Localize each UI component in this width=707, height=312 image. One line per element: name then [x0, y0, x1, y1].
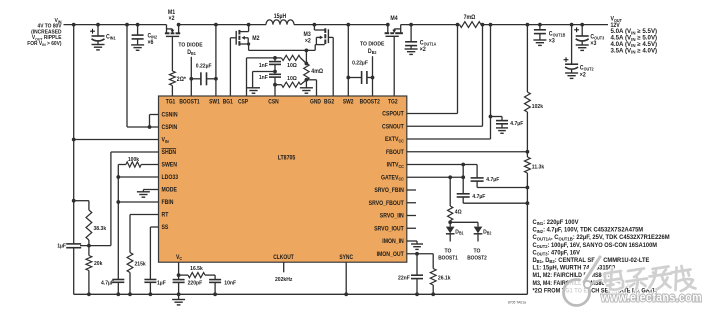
wire VIN pin wire — [74, 139, 159, 141]
svg-text:×2: ×2 — [305, 38, 312, 44]
svg-text:4.0A (VIN ≥ 4.5V): 4.0A (VIN ≥ 4.5V) — [611, 42, 658, 48]
capacitor 10nF compensation — [209, 280, 236, 295]
capacitor CIN2 x6 (ceramic, to ground) — [131, 25, 158, 51]
capacitor 4.7uF INTVCC bypass — [471, 177, 528, 188]
capacitor 0.22uF boost2 — [348, 61, 372, 84]
junction ground rail / 1uF SS — [149, 292, 153, 296]
svg-text:1µF: 1µF — [57, 244, 66, 250]
junction VIN rail / CIN1 — [96, 23, 100, 27]
svg-text:0.22µF: 0.22µF — [352, 61, 368, 67]
resistor 215k RT — [127, 253, 146, 273]
junction rail / COUT3 — [580, 23, 584, 27]
wire SHDN pin wire — [111, 152, 159, 246]
svg-text:SW2: SW2 — [343, 99, 354, 105]
wire CSN riser — [274, 85, 276, 96]
wire BOOST2 riser — [372, 56, 374, 96]
wire CSNIN pin stub — [150, 115, 159, 128]
svg-text:FBOUT: FBOUT — [386, 150, 404, 156]
svg-text:SRVO_FBIN: SRVO_FBIN — [374, 188, 403, 194]
junction SW2 riser / 0.22uF — [346, 76, 350, 80]
svg-text:TG1: TG1 — [166, 99, 176, 105]
junction FBIN wire — [116, 200, 120, 204]
svg-text:SRVO_IOUT: SRVO_IOUT — [374, 226, 404, 232]
wire 215k to ground rail — [129, 273, 131, 295]
svg-text:4.5A (VIN ≥ 5.0V): 4.5A (VIN ≥ 5.0V) — [611, 36, 658, 42]
svg-text:DB1: DB1 — [187, 50, 196, 56]
svg-text:FOR VIN > 60V): FOR VIN > 60V) — [27, 41, 61, 47]
svg-text:10Ω: 10Ω — [287, 76, 297, 82]
svg-text:COUT2: COUT2 — [580, 66, 594, 72]
svg-text:5.0A (VIN ≥ 5.5V): 5.0A (VIN ≥ 5.5V) — [611, 29, 658, 35]
junction CSN node — [273, 83, 277, 87]
node BOM parts list — [533, 219, 670, 294]
svg-text:BOOST1: BOOST1 — [179, 99, 200, 105]
svg-text:10Ω: 10Ω — [287, 63, 297, 69]
junction ground rail / 22nF — [415, 292, 419, 296]
junction GATEVCC / tie — [461, 175, 465, 179]
wire 4mOhm bottom to GND pin — [306, 80, 316, 96]
svg-text:SW1: SW1 — [209, 99, 220, 105]
capacitor CIN1 (polarized, to ground) — [90, 25, 116, 50]
junction source wire / 4mOhm — [305, 49, 309, 53]
wire VIN riser (rail down to divider/bypass) — [73, 25, 75, 244]
wire SRVO_IOUT stub — [407, 227, 416, 229]
wire M1 gate to 2 Ohm resistor — [171, 36, 173, 71]
svg-text:×2: ×2 — [580, 73, 587, 79]
svg-text:12V: 12V — [611, 23, 620, 29]
junction ground rail / 20k — [87, 292, 91, 296]
svg-text:COUT1A, COUT1B: 22µF, 25V, TDK: COUT1A, COUT1B: 22µF, 25V, TDK C4532X7R1… — [533, 234, 670, 241]
wire SRVO_IIN stub — [407, 215, 416, 217]
junction ground rail / 220pF — [177, 292, 181, 296]
wire filter mid node to ground — [253, 72, 275, 88]
svg-text:DB1: DB1 — [455, 229, 464, 235]
wire RT pin wire — [130, 215, 159, 253]
svg-text:CSPIN: CSPIN — [162, 125, 178, 131]
wire feedback ground chain — [526, 173, 528, 294]
wire mid node to SHDN riser — [80, 245, 111, 247]
svg-text:TO: TO — [474, 248, 481, 254]
capacitor COUT3 x3 (polarized, to ground) — [574, 25, 605, 51]
svg-text:3.5A (VIN ≥ 4.0V): 3.5A (VIN ≥ 4.0V) — [611, 48, 658, 54]
wire CSNIN-CSPIN riser — [127, 25, 159, 127]
resistor 26.1k IMON_OUT — [430, 269, 451, 295]
wire TG2 riser (M4 gate to TG2) — [393, 36, 395, 96]
junction rail / M4 drain — [386, 23, 390, 27]
junction 4mOhm bottom — [305, 78, 309, 82]
junction VC node — [177, 273, 181, 277]
svg-text:TO: TO — [445, 248, 452, 254]
svg-text:TO DIODE: TO DIODE — [178, 42, 202, 48]
capacitor COUT2 x2 (polarized, to ground) — [564, 25, 595, 79]
svg-text:26.1k: 26.1k — [438, 276, 451, 282]
junction rail / COUT1A — [409, 23, 413, 27]
capacitor 1uF VIN bypass — [57, 244, 81, 295]
junction IMON_OUT / 22nF — [415, 252, 419, 256]
resistor 102k feedback upper — [525, 92, 544, 112]
svg-text:2Ω*: 2Ω* — [177, 77, 187, 83]
node VOUT output label — [611, 17, 658, 55]
junction ground rail / SYNC — [344, 292, 348, 296]
wire FBOUT pin wire — [407, 151, 528, 153]
svg-text:SRVO_IIN: SRVO_IIN — [380, 214, 404, 220]
wire ground rail — [74, 293, 528, 295]
ground IMON_IN — [411, 244, 423, 249]
junction rail / COUT1B — [538, 23, 542, 27]
ground MODE — [137, 192, 150, 197]
svg-text:SS: SS — [162, 225, 169, 231]
svg-text:×6: ×6 — [148, 40, 155, 46]
svg-text:CSN: CSN — [268, 99, 278, 105]
wire CSPOUT sense line — [407, 25, 458, 114]
svg-text:SHDN: SHDN — [162, 150, 177, 156]
svg-text:TG2: TG2 — [388, 99, 398, 105]
wire BOOST1 riser — [190, 57, 192, 96]
junction fb chain / GATEVCC cap return — [526, 201, 530, 205]
junction ground rail / 26.1k — [431, 292, 435, 296]
svg-text:GND: GND — [310, 99, 321, 105]
transistor M4 (top-right NMOS switch) — [385, 16, 403, 36]
svg-text:0.22µF: 0.22µF — [196, 63, 212, 69]
junction EXTVCC riser / bypass — [489, 115, 493, 119]
svg-text:DB2: DB2 — [483, 229, 492, 235]
svg-text:BG2: BG2 — [324, 99, 335, 105]
wire rail segment E (7mOhm to VOUT label) — [481, 24, 608, 26]
svg-text:M3: M3 — [304, 32, 312, 38]
svg-text:www.elecfans.com: www.elecfans.com — [600, 290, 702, 305]
svg-text:15µH: 15µH — [274, 14, 287, 20]
junction rail / COUT2 riser — [570, 23, 574, 27]
resistor 4 Ohm boost diode feed — [448, 177, 462, 222]
svg-text:7mΩ: 7mΩ — [464, 15, 476, 21]
wire FBIN pin wire — [118, 201, 158, 203]
svg-text:INTVCC: INTVCC — [387, 163, 404, 169]
svg-text:4mΩ: 4mΩ — [311, 69, 323, 75]
node TO BOOST2 label — [467, 248, 487, 261]
wire LDO33 pin wire — [118, 176, 158, 178]
svg-text:102k: 102k — [532, 104, 544, 110]
svg-text:20k: 20k — [94, 261, 103, 267]
wire VIN rail segment A (VIN label to M1 source) — [64, 24, 167, 26]
svg-text:CIN2: CIN2 — [148, 33, 158, 39]
junction filter mid node — [273, 70, 277, 74]
capacitor COUT1B x3 (to ground) — [533, 25, 565, 46]
wire divider feed — [74, 201, 89, 210]
svg-text:×3: ×3 — [590, 41, 597, 47]
svg-text:CIN2: 4.7µF, 100V, TDK C4532X7: CIN2: 4.7µF, 100V, TDK C4532X7S2A475M — [533, 227, 644, 234]
svg-text:EXTVCC: EXTVCC — [385, 137, 404, 143]
wire rail segment B (M1 drain to inductor) — [179, 24, 266, 26]
svg-text:DB2: DB2 — [368, 49, 377, 55]
wire 20k to ground rail — [88, 271, 90, 295]
node elecfans watermark chinese characters — [605, 266, 696, 291]
wire IMON_OUT pin wire — [407, 254, 433, 269]
svg-text:×3: ×3 — [549, 38, 556, 44]
svg-text:LT8705: LT8705 — [278, 156, 296, 162]
wire VC pin lead — [178, 262, 180, 275]
wire rail segment D (M4 source to 7mOhm) — [401, 24, 460, 26]
junction rail / CSPOUT riser — [456, 23, 460, 27]
svg-text:16.5k: 16.5k — [190, 266, 203, 272]
wire 102k riser from rail — [526, 25, 528, 92]
transistor M2 (bottom-left NMOS) — [230, 25, 260, 51]
wire M2 source to M3 source (sense node) — [249, 49, 316, 51]
capacitor 4.7uF GATEVCC bypass — [457, 194, 528, 203]
wire SYNC riser to ground rail — [345, 262, 347, 294]
junction SHDN divider mid node — [87, 244, 91, 248]
resistor 4mOhm current sense — [304, 50, 323, 79]
capacitor 220pF compensation — [173, 275, 203, 294]
capacitor 4.7uF EXTVCC bypass — [491, 117, 524, 134]
resistor 2 Ohm* gate resistor — [170, 71, 187, 86]
svg-text:M1: M1 — [168, 10, 176, 16]
wire rail segment C (inductor to M4 drain) — [294, 24, 388, 26]
capacitor COUT1A x2 (to ground) — [405, 25, 437, 55]
junction rail / SW2 riser — [346, 23, 350, 27]
pin label SHDN — [162, 149, 177, 157]
junction rail / M1 drain — [177, 23, 181, 27]
svg-text:38.3k: 38.3k — [94, 226, 107, 232]
junction BOOST1 riser / 0.22uF — [189, 77, 193, 81]
junction ground rail / 215k — [128, 292, 132, 296]
resistor 20k — [86, 256, 103, 271]
wire CLKOUT pin stub — [283, 262, 285, 272]
wire 38.3k to mid node — [88, 240, 90, 256]
svg-text:4Ω: 4Ω — [455, 210, 462, 216]
junction rail / M3 drain — [313, 23, 317, 27]
wire LDO33 riser — [117, 165, 119, 280]
svg-text:GATEVCC: GATEVCC — [381, 175, 404, 181]
svg-text:10nF: 10nF — [224, 281, 236, 287]
wire BG1 riser (M2 gate to BG1) — [229, 38, 231, 96]
svg-text:×2: ×2 — [420, 47, 427, 53]
junction SW1 riser / 0.22uF — [214, 77, 218, 81]
junction GATEVCC / 4 Ohm — [448, 175, 452, 179]
resistor 10 Ohm upper filter — [275, 55, 306, 69]
svg-text:1µF: 1µF — [157, 281, 166, 287]
wire EXTVCC riser to VOUT — [407, 25, 491, 139]
resistor 10 Ohm lower filter — [275, 76, 306, 87]
svg-text:CSP: CSP — [238, 99, 248, 105]
svg-text:M2: M2 — [252, 36, 260, 42]
svg-text:BOOST2: BOOST2 — [360, 99, 381, 105]
junction rail / CSNOUT riser — [481, 23, 485, 27]
svg-text:COUT2: 100µF, 16V, SANYO OS-CO: COUT2: 100µF, 16V, SANYO OS-CON 16SA100M — [533, 242, 658, 249]
wire 4mOhm bottom to ground — [305, 80, 307, 88]
junction LDO33 wire — [116, 175, 120, 179]
junction 4 Ohm / diodes — [448, 220, 452, 224]
node elecfans watermark logo glasses — [564, 257, 629, 306]
wire IMON_IN to ground — [407, 241, 417, 244]
svg-text:SWEN: SWEN — [162, 163, 177, 169]
wire DB1-DB2 anode wire — [450, 221, 478, 223]
svg-text:100k: 100k — [128, 157, 140, 163]
wire SS pin wire — [150, 227, 158, 280]
svg-text:COUT3: COUT3 — [590, 34, 604, 40]
capacitor 0.22uF boost1 — [191, 63, 216, 85]
wire MODE pin to ground — [143, 190, 158, 192]
ground filter mid node — [247, 88, 260, 93]
capacitor 1uF soft-start — [144, 280, 166, 295]
svg-text:4.7µF: 4.7µF — [101, 281, 114, 287]
wire 102k to FBOUT node — [526, 112, 528, 157]
svg-text:RT: RT — [162, 213, 169, 219]
resistor 100k SWEN pull-up — [118, 157, 158, 167]
transistor M3 x2 (bottom-right NMOS) — [304, 25, 334, 51]
svg-text:1nF: 1nF — [259, 75, 268, 81]
junction rail / M2 drain — [247, 23, 251, 27]
junction fb chain / INTVCC cap return — [526, 186, 530, 190]
svg-text:4.7µF: 4.7µF — [510, 121, 523, 127]
svg-text:FBIN: FBIN — [162, 200, 174, 206]
junction rail / EXTVCC riser — [489, 23, 493, 27]
svg-text:SYNC: SYNC — [339, 255, 353, 261]
junction CSP node — [273, 56, 277, 60]
svg-text:TO DIODE: TO DIODE — [360, 41, 384, 47]
diode DB2 boost2 — [474, 222, 492, 241]
wire SW2 riser — [347, 25, 349, 96]
svg-text:1nF: 1nF — [259, 63, 268, 69]
svg-text:CIN1: CIN1 — [106, 34, 116, 40]
junction FBOUT node — [526, 150, 530, 154]
junction VIN riser / VIN pin wire — [72, 138, 76, 142]
junction VIN rail / CIN2 — [136, 23, 140, 27]
capacitor 1nF upper filter — [259, 58, 281, 72]
junction rail / 102k — [526, 23, 530, 27]
wire SRVO_FBIN stub — [407, 189, 416, 191]
junction rail / SW1 riser — [214, 23, 218, 27]
node VIN input label — [27, 18, 61, 47]
junction ground rail / 10nF — [213, 292, 217, 296]
svg-text:SRVO_FBOUT: SRVO_FBOUT — [369, 201, 404, 207]
svg-text:M1, M2: FAIRCHILD FDMS86101: M1, M2: FAIRCHILD FDMS86101 — [533, 272, 614, 279]
wire CSNOUT sense line — [407, 25, 483, 127]
svg-text:COUT1B: COUT1B — [549, 31, 566, 37]
wire BG2 riser (M3 gate to BG2) — [332, 37, 334, 96]
capacitor 4.7uF LDO33 bypass — [101, 280, 124, 295]
resistor 16.5k compensation — [179, 266, 216, 280]
svg-text:COUT1A: COUT1A — [420, 40, 437, 46]
junction VIN rail / CSNIN-CSPIN riser — [125, 23, 129, 27]
junction ground rail / 4.7uF — [116, 292, 120, 296]
svg-text:22nF: 22nF — [398, 276, 410, 282]
svg-text:215k: 215k — [135, 261, 147, 267]
transistor M1 x2 (top-left NMOS switch) — [165, 10, 180, 37]
svg-text:IMON_OUT: IMON_OUT — [377, 252, 405, 258]
svg-text:IMON_IN: IMON_IN — [382, 239, 404, 245]
junction VIN riser / divider feed — [72, 199, 76, 203]
svg-text:4.7µF: 4.7µF — [472, 194, 485, 200]
wire INTVCC pin wire — [407, 165, 477, 178]
svg-text:CSPOUT: CSPOUT — [382, 112, 404, 118]
resistor 7mOhm output sense — [460, 15, 482, 28]
junction M2 source / body — [247, 42, 250, 45]
svg-text:BG1: BG1 — [223, 99, 234, 105]
svg-text:M4: M4 — [390, 16, 398, 22]
junction VIN rail / VIN riser — [72, 23, 76, 27]
svg-text:L1: 15µH, WURTH 7443631500: L1: 15µH, WURTH 7443631500 — [533, 265, 616, 272]
svg-text:CLKOUT: CLKOUT — [273, 255, 294, 261]
node TO DIODE DB2 label — [360, 41, 384, 55]
inductor L1 15uH — [266, 14, 294, 25]
svg-text:BOOST1: BOOST1 — [438, 255, 458, 261]
node TO BOOST1 label — [438, 248, 458, 261]
svg-text:VC: VC — [176, 255, 182, 261]
wire SRVO_FBOUT stub — [407, 202, 416, 204]
op-amp U1 LT8705 controller IC — [159, 96, 407, 262]
wire INTVCC-GATEVCC tie — [462, 165, 464, 194]
svg-text:MODE: MODE — [162, 188, 177, 194]
svg-text:×2: ×2 — [169, 16, 176, 22]
wire GATEVCC pin wire — [407, 176, 463, 178]
node TO DIODE DB1 label — [178, 42, 202, 56]
svg-text:220pF: 220pF — [188, 281, 203, 287]
resistor 11.3k feedback lower — [525, 157, 545, 173]
svg-text:8705 TA01a: 8705 TA01a — [508, 299, 527, 304]
capacitor 22nF IMON_OUT — [398, 254, 423, 295]
svg-text:CSNOUT: CSNOUT — [382, 124, 404, 130]
junction BOOST2 riser / 0.22uF — [371, 76, 375, 80]
wire CSP sense line — [247, 58, 276, 96]
svg-text:202kHz: 202kHz — [275, 277, 292, 283]
junction 4mOhm top / 10 Ohm — [305, 62, 309, 66]
svg-text:BOOST2: BOOST2 — [467, 255, 487, 261]
junction CSPIN wire / CSNIN stub — [148, 125, 152, 129]
ground below 4mOhm — [300, 88, 313, 93]
wire 2 Ohm to TG1 pin — [171, 86, 173, 97]
wire SW1 riser — [215, 25, 217, 96]
ground at VC network — [172, 294, 185, 305]
svg-text:CSNIN: CSNIN — [162, 113, 178, 119]
svg-text:LDO33: LDO33 — [162, 175, 179, 181]
resistor 38.3k — [86, 210, 107, 240]
capacitor 1nF lower filter — [259, 74, 281, 84]
svg-text:VIN: VIN — [162, 138, 169, 144]
junction INTVCC / tie — [461, 163, 465, 167]
diode DB1 boost1 — [446, 222, 464, 241]
svg-text:4.7µF: 4.7µF — [486, 177, 499, 183]
svg-text:11.3k: 11.3k — [532, 164, 545, 170]
